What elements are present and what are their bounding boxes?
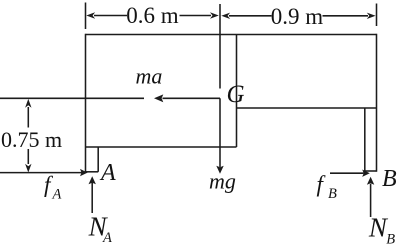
- arrowhead f_A (points right): [80, 169, 88, 176]
- svg-text:0.6 m: 0.6 m: [126, 3, 179, 28]
- ma arrow shaft: [163, 97, 221, 99]
- arrowhead N_A (points up): [89, 176, 96, 184]
- f_B arrow shaft: [330, 172, 364, 174]
- svg-text:B: B: [382, 166, 397, 192]
- arrowhead N_B (points up): [367, 177, 374, 185]
- dimension line 0.9 m left segment: [229, 15, 272, 17]
- svg-text:A: A: [52, 186, 62, 202]
- extension line right (top dimension): [376, 4, 378, 27]
- leg B bottom edge: [365, 170, 377, 172]
- arrowhead 0.6 m left: [86, 12, 95, 18]
- N_B arrow shaft: [370, 184, 372, 217]
- svg-text:B: B: [328, 186, 337, 202]
- svg-text:A: A: [102, 230, 112, 245]
- N_A arrow shaft: [91, 183, 93, 214]
- arrowhead mg (points down): [216, 166, 223, 174]
- leg B left side: [364, 108, 366, 171]
- dimension line 0.6 m right segment: [180, 15, 212, 17]
- vertical step line through G: [236, 35, 238, 148]
- 0.75 m reference line (top): [0, 97, 144, 99]
- 0.75 m dim up-arrow shaft: [27, 107, 29, 128]
- svg-text:f: f: [317, 172, 327, 197]
- svg-text:0.75 m: 0.75 m: [1, 127, 62, 152]
- f_A arrow shaft: [0, 172, 82, 174]
- body right edge: [376, 34, 378, 172]
- arrowhead 0.6 m right: [210, 12, 219, 18]
- arrowhead f_B (points right): [362, 170, 370, 177]
- leg A bottom edge: [86, 171, 99, 173]
- 0.75 m dim down-arrow shaft: [27, 149, 29, 164]
- arrowhead 0.75 m up: [25, 99, 31, 108]
- svg-text:B: B: [386, 231, 395, 245]
- svg-text:ma: ma: [136, 64, 163, 89]
- left block bottom edge: [86, 146, 237, 148]
- arrowhead 0.9 m right: [367, 13, 376, 19]
- svg-text:0.9 m: 0.9 m: [271, 4, 324, 29]
- mg arrow shaft: [219, 98, 221, 167]
- svg-text:mg: mg: [209, 169, 236, 194]
- dimension line 0.9 m right segment: [323, 15, 369, 17]
- leg A right side: [97, 147, 99, 172]
- arrowhead 0.9 m left: [221, 13, 230, 19]
- dimension line 0.6 m left segment: [94, 15, 127, 17]
- extension line left (top dimension): [85, 3, 87, 30]
- body top edge: [86, 34, 377, 36]
- extension/center line through G: [219, 4, 221, 89]
- svg-text:G: G: [227, 81, 245, 108]
- body left edge: [85, 34, 87, 173]
- arrowhead ma (points left): [154, 94, 163, 102]
- right block bottom edge: [237, 107, 377, 109]
- arrowhead 0.75 m down: [25, 164, 31, 173]
- svg-text:A: A: [99, 160, 116, 186]
